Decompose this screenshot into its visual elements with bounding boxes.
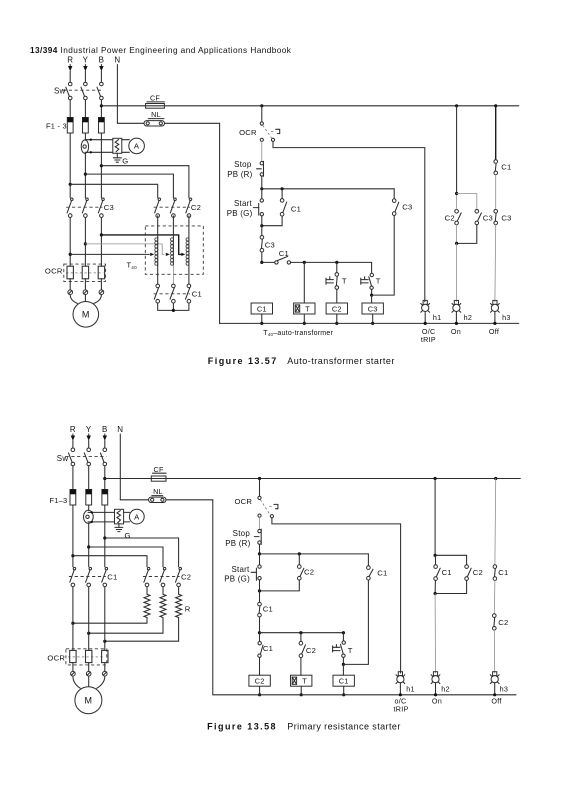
junction B control tap (bottom) xyxy=(103,477,106,480)
switch Sw pole Y xyxy=(84,82,88,86)
wire Y fuse to CT xyxy=(84,133,86,140)
svg-text:R: R xyxy=(70,425,76,434)
junction C1 coil branch (bottom) xyxy=(342,631,345,634)
junction below Start (bottom) xyxy=(258,589,261,592)
motor leads xyxy=(70,295,77,304)
wire Start to C1 interlock xyxy=(259,580,261,591)
svg-text:F1 - 3: F1 - 3 xyxy=(46,122,67,131)
overload relay OCR dashed box (top fig) xyxy=(64,264,106,281)
wire coil feed row (bottom) xyxy=(260,632,344,634)
contactor C1 star pole 2 xyxy=(172,284,176,288)
wire NL fuse to neutral drop (bottom) xyxy=(166,499,213,501)
wire neutral rail (top fig) xyxy=(220,322,519,324)
wire right branch down (bottom) xyxy=(343,580,368,664)
switch Sw linkage + label (bottom) xyxy=(66,456,107,458)
svg-text:C2: C2 xyxy=(304,568,314,577)
contact C3 (h2 lamp) xyxy=(475,210,479,214)
junction B control tap xyxy=(100,104,103,107)
contact C2 (h2 lamp, bottom) xyxy=(465,565,469,569)
wire CT secondary bottom xyxy=(85,151,113,153)
fuse F3 (B bottom) xyxy=(102,490,108,506)
contact C1 (h3 lamp) xyxy=(494,160,498,164)
wire C2 pole2 to resistor2 xyxy=(162,587,164,594)
switch Sw linkage + label xyxy=(63,89,103,91)
wire OCR trip to lamp h1 xyxy=(273,141,425,301)
junction C2 coil branch xyxy=(335,261,338,264)
junction h2 parallel top xyxy=(455,192,458,195)
wire to T coil (bottom) xyxy=(300,658,302,676)
wire B fuse down xyxy=(100,133,102,198)
junction B to C2 bank xyxy=(100,164,103,167)
overload relay OCR dashed box (bottom fig) xyxy=(66,649,107,665)
wire column to OCR contact xyxy=(261,106,263,122)
contactor C2 pole 2 (bottom) xyxy=(163,567,166,570)
contact C2 parallel (bottom fig) xyxy=(298,554,300,565)
wire C2 coil to rail xyxy=(336,314,338,323)
motor terminal 1 (bottom) xyxy=(71,671,76,676)
svg-text:Sw: Sw xyxy=(54,86,66,95)
wire OCR to Stop (bottom, faint) xyxy=(259,517,261,529)
svg-text:C3: C3 xyxy=(483,214,493,223)
svg-text:C3: C3 xyxy=(104,203,114,212)
OCR heater R (bottom) xyxy=(70,650,76,662)
contact C2 (h3 lamp, bottom) xyxy=(493,614,497,618)
junction h2 parallel bottom (bottom) xyxy=(434,592,437,595)
contact C1 (h2 lamp, bottom) xyxy=(434,565,438,569)
motor leads (bottom) xyxy=(73,676,80,688)
junction h3 top xyxy=(494,104,497,107)
svg-text:N: N xyxy=(114,56,120,65)
contactor C1 pole 1 (bottom) xyxy=(73,567,76,570)
wire h1 to rail xyxy=(424,312,426,324)
contact C2 (T coil branch) xyxy=(300,633,302,642)
wire B below C3 to OCR xyxy=(100,218,102,267)
contactor C1 pole 3 (bottom) xyxy=(105,567,108,570)
ammeter A (top fig) xyxy=(129,138,145,154)
wire control phase line (CF rail) xyxy=(101,105,518,107)
svg-text:CF: CF xyxy=(154,465,164,474)
svg-text:On: On xyxy=(451,327,461,336)
coil C2 (top fig) xyxy=(326,303,347,314)
wire B below C1 to OCR (bottom) xyxy=(104,587,106,651)
wire Start to C3 interlock xyxy=(261,216,263,226)
current transformer CT (bottom fig) xyxy=(84,510,94,523)
svg-text:B: B xyxy=(99,56,105,65)
wire resistor2 return xyxy=(89,618,163,634)
wire star bus xyxy=(158,303,189,310)
wire B tap to C2 pole3 xyxy=(101,166,188,198)
motor terminal 3 (bottom) xyxy=(103,671,108,676)
wire R OCR to terminal xyxy=(69,279,71,290)
svg-text:C2: C2 xyxy=(255,677,265,686)
contactor C2 pole 1 xyxy=(158,198,161,201)
wire resistor3 return xyxy=(105,618,179,642)
wire C1 to junction row (bottom) xyxy=(259,617,261,633)
wire C2 coil to rail (bottom) xyxy=(259,687,261,695)
switch Sw pole B xyxy=(100,82,104,86)
svg-text:h1: h1 xyxy=(406,684,415,693)
OCR heater R xyxy=(67,266,73,279)
wire R tap to C2 pole1 (bottom) xyxy=(73,556,147,567)
wire CT secondary top (bottom) xyxy=(88,511,115,513)
wire Stop to junction xyxy=(261,176,263,189)
wire C2 branch upper xyxy=(336,262,338,272)
wire to C2 coil (bottom) xyxy=(259,658,261,676)
junction Y to C2 bank (bottom) xyxy=(87,545,90,548)
wire h2 left through xyxy=(456,195,458,209)
wire Y below C1 to OCR (bottom) xyxy=(88,587,90,651)
fuse F3 (B) xyxy=(99,118,105,134)
coil C1 (bottom fig) xyxy=(333,675,354,686)
wire right branch down xyxy=(372,215,395,295)
wire R switch to fuse (bottom) xyxy=(72,466,74,490)
contact C1 auxiliary (right branch, bottom) xyxy=(367,554,369,566)
svg-text:C2: C2 xyxy=(181,573,191,582)
wire resistor1 return xyxy=(73,618,147,624)
motor terminal 1 xyxy=(68,290,73,295)
svg-text:13/394 Industrial Power Engin: 13/394 Industrial Power Engineering and … xyxy=(30,46,292,55)
contact C1 (C2 coil branch) xyxy=(259,633,261,642)
wire h2 column upper (bottom) xyxy=(434,479,436,556)
svg-text:On: On xyxy=(432,696,442,705)
transformer winding 2 xyxy=(172,238,174,266)
fuse F1 (R) xyxy=(67,118,73,134)
junction T coil branch (bottom) xyxy=(299,631,302,634)
wire Y tap to C2 pole2 xyxy=(85,174,173,198)
transformer winding 1 xyxy=(157,238,159,266)
wire B switch to fuse xyxy=(100,100,102,118)
wire Y through CT down (bottom) xyxy=(88,523,90,567)
svg-text:C3: C3 xyxy=(265,240,275,249)
wire Y below C3 to OCR xyxy=(84,218,86,267)
svg-text:Stop: Stop xyxy=(233,529,251,538)
lamp h3 (top fig) xyxy=(493,300,497,304)
wire coil feed row left xyxy=(262,261,275,263)
wire h2 column upper xyxy=(456,106,458,194)
svg-text:A: A xyxy=(134,142,140,151)
meter shunt box (bottom fig) xyxy=(115,509,124,524)
junction R transformer tap xyxy=(69,253,72,256)
resistor R phase3 xyxy=(176,594,182,617)
junction C3 coil top xyxy=(370,294,373,297)
wire R fuse down (bottom) xyxy=(72,505,74,567)
auto-transformer T40 dashed box xyxy=(145,226,203,274)
junction B transformer tap xyxy=(100,233,103,236)
junction control column top (top fig) xyxy=(260,104,263,107)
wire B OCR to terminal xyxy=(100,279,102,290)
svg-text:C1: C1 xyxy=(291,204,301,213)
wire neutral drop (top fig) xyxy=(219,123,221,323)
wire B fuse down (bottom) xyxy=(104,505,106,567)
pushbutton Stop PB(R) (top fig) xyxy=(260,162,263,165)
junction coil feed (bottom fig) xyxy=(258,631,261,634)
svg-text:F1–3: F1–3 xyxy=(50,496,68,505)
switch Sw pole R xyxy=(68,82,72,86)
wire Y fuse to CT (bottom) xyxy=(88,505,90,511)
wire OCR to Stop (faint) xyxy=(261,142,263,162)
ammeter A (bottom fig) xyxy=(129,509,144,524)
contactor C1 linkage + label (bottom) xyxy=(69,576,106,578)
svg-text:C3: C3 xyxy=(402,203,412,212)
svg-text:C2: C2 xyxy=(498,618,508,627)
wire CT secondary top xyxy=(85,139,113,141)
svg-text:T: T xyxy=(348,646,353,655)
pushbutton Stop PB(R) (bottom fig) xyxy=(258,529,261,532)
svg-text:R: R xyxy=(185,605,191,614)
svg-text:C1: C1 xyxy=(501,162,511,171)
svg-text:Y: Y xyxy=(83,56,89,65)
wire R fuse down xyxy=(69,133,71,198)
svg-text:PB (R): PB (R) xyxy=(225,539,250,548)
wire NL fuse to neutral drop xyxy=(165,122,220,124)
junction h2 top xyxy=(455,104,458,107)
current transformer CT (top fig) xyxy=(81,140,88,153)
svg-text:M: M xyxy=(85,696,93,706)
wire Y OCR to terminal xyxy=(84,279,86,290)
fuse F1 (R bottom) xyxy=(70,490,76,506)
svg-text:h3: h3 xyxy=(502,313,511,322)
svg-text:C1: C1 xyxy=(263,644,273,653)
transformer winding 3 xyxy=(188,238,190,266)
contact C1 parallel (top fig) xyxy=(281,189,283,199)
svg-text:Start: Start xyxy=(234,199,253,208)
wire C1 coil to rail xyxy=(261,314,263,323)
contact C2 (h2 lamp) xyxy=(455,210,459,214)
svg-text:h1: h1 xyxy=(433,313,442,322)
wire coil feed row right xyxy=(291,261,372,263)
wire h2 column lower (bottom) xyxy=(434,594,436,674)
lamp h2 (top fig) xyxy=(454,300,458,304)
contactor C3 pole 3 xyxy=(102,198,105,201)
motor terminal 2 (bottom) xyxy=(86,671,91,676)
junction C2 parallel top (bottom) xyxy=(298,552,301,555)
contactor C2 pole 3 xyxy=(189,198,192,201)
svg-text:C1: C1 xyxy=(107,573,117,582)
svg-text:C1: C1 xyxy=(257,304,267,313)
junction h2 top (bottom) xyxy=(434,477,437,480)
wire coil1 to C1 pole1 xyxy=(157,265,159,284)
svg-text:T40–auto-transformer: T40–auto-transformer xyxy=(263,330,333,337)
svg-text:C2: C2 xyxy=(473,568,483,577)
contact C3 interlock (top fig) xyxy=(260,236,264,240)
wire Y switch to fuse (bottom) xyxy=(88,466,90,490)
svg-text:Sw: Sw xyxy=(57,454,69,463)
svg-text:PB (G): PB (G) xyxy=(227,209,253,218)
wire T coil drop xyxy=(303,262,305,303)
motor M (bottom fig) xyxy=(75,687,102,714)
wire Y tap to C2 pole2 (bottom) xyxy=(89,547,163,567)
svg-text:C1: C1 xyxy=(498,568,508,577)
svg-text:C1: C1 xyxy=(377,569,387,578)
junction Y transformer tap xyxy=(84,242,87,245)
contact C3 auxiliary (right branch) xyxy=(393,189,395,199)
wire h2 parallel bottom link (bottom) xyxy=(435,580,467,593)
junction Y to C2 bank xyxy=(84,173,87,176)
motor terminal 2 xyxy=(83,290,88,295)
wire h3 column upper (bottom) xyxy=(494,479,497,565)
svg-text:T: T xyxy=(376,277,381,286)
lamp h1 (bottom fig) xyxy=(398,672,402,676)
wire coil3 to C1 pole3 xyxy=(188,265,190,284)
wire C3 branch to junction xyxy=(371,290,373,296)
lamp h2 (bottom fig) xyxy=(433,672,437,676)
wire N to NL fuse (bottom) xyxy=(120,499,148,501)
svg-text:C1: C1 xyxy=(442,568,452,577)
svg-text:OCR: OCR xyxy=(234,497,252,506)
wire coil2 to C1 pole2 xyxy=(172,265,174,284)
svg-text:T: T xyxy=(302,677,307,686)
wire R tap to C2 pole1 xyxy=(70,184,158,197)
wire h2 parallel top link (bottom) xyxy=(435,555,467,565)
wire C2 pole3 to resistor3 xyxy=(178,587,180,594)
svg-text:C1: C1 xyxy=(279,249,289,258)
wire shunt to ammeter (bottom) xyxy=(124,511,130,513)
resistor R phase1 xyxy=(144,594,150,617)
svg-text:Figure 13.57: Figure 13.57 xyxy=(208,356,278,366)
svg-text:C2: C2 xyxy=(445,213,455,222)
fuse F2 (Y) xyxy=(83,118,89,134)
wire h3 column lower xyxy=(494,225,497,302)
svg-text:Auto-transformer starter: Auto-transformer starter xyxy=(287,356,395,366)
contactor C3 pole 2 xyxy=(86,198,89,201)
junction B to C2 bank (bottom) xyxy=(103,536,106,539)
wire R OCR to terminal (bottom) xyxy=(72,663,74,672)
svg-text:Off: Off xyxy=(489,327,500,336)
wire Y tap to coil2 xyxy=(85,244,164,255)
coil T timer (top fig) xyxy=(294,303,315,314)
wire CT secondary bottom (bottom) xyxy=(88,521,115,523)
motor terminal 3 xyxy=(99,290,104,295)
svg-text:h3: h3 xyxy=(500,684,509,693)
svg-text:T: T xyxy=(342,277,347,286)
junction C1 parallel top xyxy=(281,187,284,190)
svg-text:C2: C2 xyxy=(332,304,342,313)
wire C3 coil to rail xyxy=(372,314,374,323)
svg-text:C1: C1 xyxy=(192,290,202,299)
wire h3 to rail (bottom) xyxy=(494,683,496,695)
svg-text:T: T xyxy=(305,304,310,313)
svg-text:C2: C2 xyxy=(306,646,316,655)
svg-text:A: A xyxy=(134,512,140,521)
wire neutral drop (bottom fig) xyxy=(212,500,214,695)
junction h2 parallel top (bottom) xyxy=(434,554,437,557)
wire C1 coil to rail (bottom) xyxy=(343,687,345,695)
svg-text:R: R xyxy=(67,56,73,65)
contactor C1 star pole 3 xyxy=(187,284,191,288)
junction C1 coil top (bottom) xyxy=(342,663,345,666)
junction coil feed (top fig) xyxy=(260,261,263,264)
contactor C3 linkage + label xyxy=(66,206,102,208)
contactor C2 pole 2 xyxy=(174,198,177,201)
wire control phase line (bottom CF rail) xyxy=(105,478,521,480)
timer contact T (for C2 coil) xyxy=(335,273,339,277)
wire C2 pole1 to resistor1 xyxy=(146,587,148,594)
wire OCR trip to lamp h1 (bottom) xyxy=(272,518,401,673)
coil C3 (top fig) xyxy=(362,303,383,314)
svg-text:C1: C1 xyxy=(339,677,349,686)
wire C3 branch upper xyxy=(371,262,373,273)
coil C2 (bottom fig) xyxy=(249,675,270,686)
coil T timer (bottom fig) xyxy=(291,675,312,686)
ground G (top fig) xyxy=(116,153,118,158)
wire R tap to coil1 xyxy=(70,253,149,255)
junction below Stop (bottom fig) xyxy=(258,552,261,555)
wire Stop to junction (bottom) xyxy=(259,544,261,554)
resistor R phase2 xyxy=(160,594,166,617)
OCR heater B xyxy=(98,266,104,279)
junction R to C2 bank xyxy=(69,183,72,186)
contactor C1 star linkage + label xyxy=(154,293,190,295)
wire h2 to rail (bottom) xyxy=(435,683,437,695)
junction h3 top (bottom) xyxy=(494,477,497,480)
contactor C2 linkage + label (bottom) xyxy=(143,576,180,578)
svg-text:CF: CF xyxy=(150,94,160,103)
lamp h1 (top fig) xyxy=(423,300,427,304)
wire Y OCR to terminal (bottom) xyxy=(88,663,90,672)
svg-text:NL: NL xyxy=(151,110,161,119)
wire C2 pole3 to coil3 xyxy=(188,216,190,238)
svg-text:PB (R): PB (R) xyxy=(227,170,252,179)
wire h3 column upper xyxy=(495,106,497,160)
timer contact T (for C3 coil) xyxy=(370,273,373,276)
wire R switch to fuse xyxy=(69,100,71,118)
svg-text:OCR: OCR xyxy=(45,267,63,276)
wire T contact to junction (bottom) xyxy=(342,658,344,665)
svg-text:h2: h2 xyxy=(464,313,473,322)
wire h3 column middle (bottom) xyxy=(493,580,496,613)
wire neutral rail (bottom fig) xyxy=(213,694,516,696)
wire T coil to rail (bottom) xyxy=(300,687,302,695)
svg-text:Off: Off xyxy=(491,696,502,705)
ground G (bottom fig) xyxy=(118,523,120,527)
svg-text:C1: C1 xyxy=(263,605,273,614)
contactor C2 pole 1 (bottom) xyxy=(147,567,150,570)
fuse F2 (Y bottom) xyxy=(86,490,92,506)
svg-text:Figure 13.58: Figure 13.58 xyxy=(207,721,277,731)
svg-text:tRIP: tRIP xyxy=(394,704,409,713)
svg-text:M: M xyxy=(82,310,90,320)
wire C2 branch lower xyxy=(336,289,338,303)
wire h2 parallel bottom link xyxy=(457,225,477,244)
svg-text:OCR: OCR xyxy=(239,128,257,137)
svg-text:h2: h2 xyxy=(441,684,450,693)
wire junction row y=554 xyxy=(260,553,369,555)
wire h3 to rail xyxy=(494,312,496,324)
contact C3 (h3 lamp) xyxy=(494,210,498,214)
wire h3 column lower (bottom) xyxy=(493,630,495,673)
meter shunt box (top fig) xyxy=(113,138,122,153)
OCR heater B (bottom) xyxy=(102,650,108,662)
svg-text:NL: NL xyxy=(153,487,163,496)
lamp h3 (bottom fig) xyxy=(493,672,497,676)
svg-text:C3: C3 xyxy=(501,214,511,223)
junction control column top (bottom fig) xyxy=(258,477,261,480)
wire C2 pole1 to coil1 xyxy=(157,216,159,238)
svg-text:B: B xyxy=(102,425,108,434)
svg-text:C3: C3 xyxy=(368,304,378,313)
junction below Stop (top fig) xyxy=(260,187,263,190)
svg-text:C2: C2 xyxy=(191,203,201,212)
junction below Start xyxy=(260,224,263,227)
pushbutton Start PB(G) (top fig) xyxy=(261,189,263,199)
switch Sw pole B (bottom) xyxy=(103,448,107,452)
junction T coil branch xyxy=(303,261,306,264)
wire R below C3 to OCR xyxy=(69,218,71,267)
wire shunt to ammeter xyxy=(122,139,130,141)
wire h2 column lower xyxy=(455,243,457,301)
OCR trip contact (top fig) xyxy=(260,122,263,125)
contact C1 series (horizontal) xyxy=(275,261,278,264)
